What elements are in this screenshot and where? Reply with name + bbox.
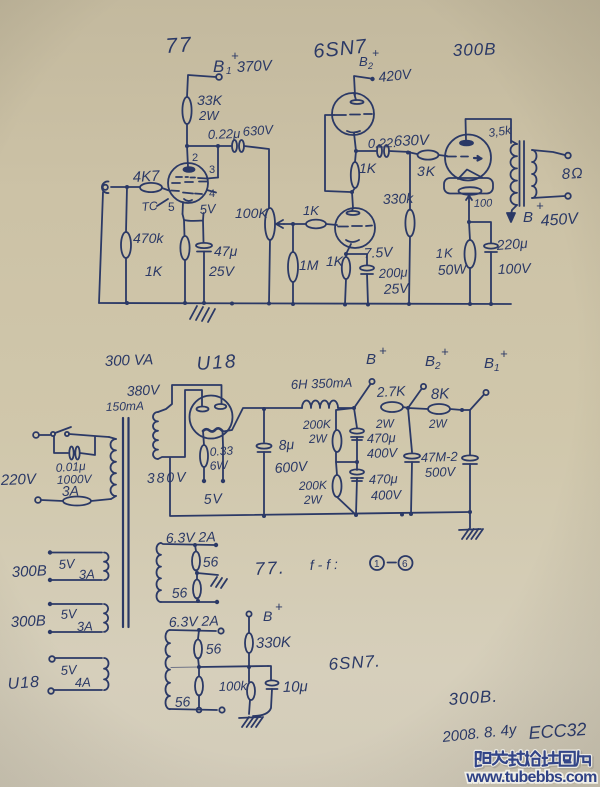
svg-text:+: + <box>275 599 283 614</box>
svg-text:www.tubebbs.com: www.tubebbs.com <box>465 769 597 786</box>
tube U18 rectifier <box>190 396 233 439</box>
svg-text:4A: 4A <box>75 674 91 690</box>
resistor 470K <box>121 187 164 303</box>
PSU ground <box>459 512 483 539</box>
svg-text:77.: 77. <box>254 557 286 579</box>
resistor 200K 2W (lower) <box>298 462 355 514</box>
label 77. <box>254 557 286 579</box>
label 220V <box>0 471 38 489</box>
svg-text:+: + <box>441 344 449 359</box>
resistor 56 (upper, second winding) <box>194 630 222 667</box>
svg-text:6W: 6W <box>209 458 230 473</box>
resistor 100K bias <box>219 667 255 714</box>
hum pot 100 <box>444 178 493 210</box>
wire 33K to plate node <box>186 124 188 146</box>
svg-text:B: B <box>366 351 376 368</box>
svg-text:370V: 370V <box>236 57 274 76</box>
node plate of 77 <box>185 144 189 148</box>
svg-text:200μ: 200μ <box>377 265 408 282</box>
svg-text:56: 56 <box>202 553 219 570</box>
svg-text:100V: 100V <box>498 260 533 277</box>
label B+ 450V <box>523 198 580 230</box>
fuse 3A <box>41 497 111 506</box>
resistor 2.7K 2W <box>375 382 408 431</box>
svg-text:220V: 220V <box>0 471 38 489</box>
svg-text:U18: U18 <box>7 674 40 693</box>
watermark CJK line <box>0 0 2 2</box>
wire plate node to coupling cap <box>187 144 231 148</box>
svg-text:56: 56 <box>205 640 222 657</box>
OPT secondary wires + terminals <box>532 150 571 199</box>
svg-text:1K: 1K <box>145 263 163 279</box>
svg-text:2W: 2W <box>198 108 220 123</box>
node lower plate <box>350 190 354 208</box>
B+ 450V arrow <box>507 205 517 222</box>
wire cap C1 to 100K node <box>244 146 269 208</box>
mains terminals <box>33 432 41 503</box>
label 7.5V <box>363 243 394 261</box>
OPT secondary coil <box>532 150 537 198</box>
svg-text:2: 2 <box>434 361 441 372</box>
label 6SN7 B2+ <box>312 35 379 71</box>
svg-text:8μ: 8μ <box>278 436 295 453</box>
svg-text:3A: 3A <box>77 618 93 634</box>
svg-text:6H 350mA: 6H 350mA <box>291 375 353 392</box>
svg-text:1K: 1K <box>303 203 320 218</box>
wire switch to primary <box>69 434 109 437</box>
svg-text:5: 5 <box>168 200 175 214</box>
label B+ <box>366 343 387 368</box>
humdinger ground (first) <box>195 571 227 588</box>
wire B+ to 33K <box>187 75 216 97</box>
svg-text:56: 56 <box>174 693 191 710</box>
choke 6H 350mA <box>291 375 353 408</box>
svg-text:200K: 200K <box>302 417 332 432</box>
label B2+ <box>425 344 449 372</box>
svg-text:470μ: 470μ <box>367 430 396 446</box>
svg-text:0.22μ: 0.22μ <box>208 126 241 142</box>
winding 6.3V 2A (second) <box>165 628 224 713</box>
wire jack to 4K7 <box>111 185 140 189</box>
svg-text:8Ω: 8Ω <box>561 165 584 183</box>
tube 6SN7 lower triode <box>335 208 375 254</box>
svg-text:300B: 300B <box>452 39 496 60</box>
svg-text:TC: TC <box>141 199 158 214</box>
capacitor 0.22u 630V (C2) <box>368 132 432 157</box>
label 380V lower <box>147 469 188 486</box>
tube 6SN7 upper triode <box>332 93 374 151</box>
wire C2 to 330k node <box>389 151 410 155</box>
svg-text:1: 1 <box>226 66 232 77</box>
svg-text:220μ: 220μ <box>495 235 528 253</box>
svg-text:1K: 1K <box>326 253 344 269</box>
resistor 1K 50W <box>435 222 475 304</box>
svg-text:3: 3 <box>209 164 215 176</box>
wire 300B plate to OPT <box>466 119 511 143</box>
svg-text:10μ: 10μ <box>283 678 308 696</box>
wire U18 output to filter <box>223 407 302 432</box>
winding U18 5V 4A <box>7 656 108 694</box>
label tube 77 <box>165 33 194 58</box>
svg-text:B: B <box>263 608 272 624</box>
wire hum wiper down <box>467 202 491 243</box>
svg-text:100: 100 <box>474 197 494 210</box>
capacitor 470u 400V (lower) <box>350 469 403 515</box>
svg-text:200K: 200K <box>298 478 328 493</box>
label 300B. <box>448 687 499 709</box>
svg-text:300B: 300B <box>10 612 46 631</box>
label 6.3V 2A (second) <box>169 612 219 630</box>
svg-text:150mA: 150mA <box>106 399 144 414</box>
svg-text:470μ: 470μ <box>369 471 398 487</box>
wire 4K7 to grid of 77 <box>162 188 169 191</box>
resistor 1K cathode 6SN7 <box>326 252 350 304</box>
transformer core <box>123 418 129 627</box>
tube 300B <box>445 119 491 181</box>
wire screen grid pin3 to plate node <box>217 146 219 178</box>
label B1+ <box>484 346 508 374</box>
svg-text:2W: 2W <box>375 416 396 431</box>
resistor 200K 2W (upper) <box>302 408 354 452</box>
label 6.3V 2A (first) <box>166 528 216 546</box>
watermark site name glyphs <box>477 753 591 768</box>
resistor 8K 2W <box>408 385 462 431</box>
resistor 56 (lower, first winding) <box>171 573 201 601</box>
svg-text:4K7: 4K7 <box>132 168 160 186</box>
svg-text:25V: 25V <box>382 280 410 297</box>
winding 300B 5V 3A (second) <box>10 602 108 634</box>
resistor 4K7 <box>132 168 162 193</box>
svg-text:25V: 25V <box>208 263 236 279</box>
svg-text:0.22.: 0.22. <box>368 135 397 151</box>
terminal B+ 370V <box>216 74 222 80</box>
svg-text:300B.: 300B. <box>448 687 499 709</box>
watermark url <box>465 769 598 788</box>
svg-text:380V: 380V <box>126 381 161 399</box>
svg-text:300B: 300B <box>11 562 47 581</box>
wire upper grid loop to cathode of lower <box>325 115 350 192</box>
wire jack sleeve to rail <box>99 192 103 303</box>
node SRPP cathode <box>354 149 358 153</box>
wire 420V to 6SN7 upper plate <box>354 76 371 95</box>
svg-text:300 VA: 300 VA <box>105 351 154 370</box>
node B+ takeoff <box>338 379 375 410</box>
OPT primary coil <box>511 141 517 205</box>
svg-text:B: B <box>359 54 368 69</box>
svg-text:100K: 100K <box>235 205 268 221</box>
humdinger node wire <box>171 665 268 669</box>
svg-text:56: 56 <box>171 584 188 601</box>
svg-text:2W: 2W <box>308 431 329 446</box>
resistor 1K grid stopper 6SN7 <box>303 203 326 228</box>
svg-text:7.5V: 7.5V <box>363 243 394 261</box>
wire HV top to right anode <box>158 385 222 412</box>
svg-text:2: 2 <box>367 61 373 71</box>
capacitor 470u 400V (upper) <box>350 408 399 470</box>
svg-text:330k: 330k <box>383 190 415 207</box>
svg-text:5V: 5V <box>58 556 76 572</box>
label 3.5k primary <box>487 123 512 140</box>
capacitor 200u 25V <box>346 254 411 304</box>
svg-text:B: B <box>425 353 435 370</box>
ground bias divider <box>239 717 263 727</box>
capacitor 10u <box>253 666 308 716</box>
label 5V <box>203 490 224 507</box>
capacitor 47u 25V <box>184 213 238 303</box>
svg-text:450V: 450V <box>540 210 580 230</box>
svg-text:33K: 33K <box>197 92 223 108</box>
svg-text:+: + <box>500 346 508 361</box>
svg-text:6SN7.: 6SN7. <box>328 651 381 674</box>
wire grid tap with arrow <box>276 220 306 228</box>
capacitor 0.01u 1000V across switch <box>54 436 95 499</box>
resistor 100K <box>235 205 275 240</box>
svg-text:600V: 600V <box>274 458 309 476</box>
svg-text:8K: 8K <box>431 385 451 403</box>
svg-text:500V: 500V <box>425 464 457 480</box>
resistor 56 (upper, first winding) <box>192 545 219 573</box>
svg-text:50W: 50W <box>437 260 468 278</box>
svg-text:380V: 380V <box>147 469 188 486</box>
svg-text:2.7K: 2.7K <box>375 382 406 400</box>
label 300B <box>452 39 496 60</box>
tube 77 (pentode) <box>168 146 218 214</box>
svg-text:1K: 1K <box>359 160 377 176</box>
PSU bottom rail <box>170 458 472 518</box>
svg-text:2W: 2W <box>428 416 449 431</box>
svg-text:+: + <box>536 198 544 213</box>
svg-text:B: B <box>213 57 224 76</box>
resistor 1K cathode 77 <box>180 214 189 303</box>
svg-text:ECC32: ECC32 <box>528 719 587 743</box>
ground rail (top schematic) <box>99 301 511 307</box>
svg-text:f - f :: f - f : <box>310 556 339 573</box>
svg-text:1K: 1K <box>435 245 454 261</box>
label 8 ohm <box>561 165 584 183</box>
input jack <box>102 181 109 193</box>
svg-text:3A: 3A <box>79 566 95 582</box>
svg-text:400V: 400V <box>371 487 403 503</box>
capacitor 47M-2 500V (first) <box>404 408 459 514</box>
capacitor 0.22u 630V (C1) <box>208 122 275 152</box>
resistor 3K grid 300B <box>410 150 447 179</box>
capacitor 220u 100V <box>484 235 532 304</box>
winding 6.3V 2A (first) <box>157 543 220 604</box>
capacitor 47M-2 (second) <box>462 410 478 512</box>
transformer primary coil <box>109 437 116 499</box>
signature 2008.8.4y ECC32 <box>441 719 588 746</box>
label 380V 150mA <box>106 381 162 414</box>
label TC <box>141 199 168 214</box>
node B1+ takeoff <box>460 390 489 412</box>
svg-text:100k: 100k <box>219 678 249 694</box>
svg-text:U18: U18 <box>196 351 238 375</box>
svg-text:47M-2: 47M-2 <box>421 449 459 465</box>
resistor 1M <box>288 224 319 303</box>
node B2+ takeoff <box>406 384 426 410</box>
resistor 1K SRPP <box>351 151 377 192</box>
resistor 33K 2W <box>182 92 222 124</box>
winding 300B 5V 3A (first) <box>11 550 108 582</box>
svg-text:B: B <box>484 355 494 372</box>
label 300 VA <box>105 351 154 370</box>
svg-text:630V: 630V <box>242 122 275 139</box>
label U18 <box>196 351 238 375</box>
svg-text:+: + <box>379 343 387 358</box>
resistor 330K bias <box>245 617 292 667</box>
wire HV bottom to left anode <box>158 390 202 459</box>
node B+ 370V label <box>213 48 274 77</box>
capacitor 8u 600V <box>257 409 310 516</box>
svg-text:0.33: 0.33 <box>209 443 234 459</box>
svg-text:B: B <box>523 209 533 226</box>
svg-text:5V: 5V <box>203 490 224 507</box>
svg-text:5V: 5V <box>199 201 217 217</box>
svg-text:+: + <box>372 46 379 60</box>
svg-text:630V: 630V <box>394 132 432 150</box>
svg-text:470k: 470k <box>133 230 164 246</box>
svg-text:400V: 400V <box>367 445 399 461</box>
switch <box>39 427 71 436</box>
terminal B+ bias <box>246 599 283 624</box>
svg-text:1: 1 <box>494 363 500 374</box>
svg-text:1: 1 <box>374 559 380 570</box>
svg-text:1M: 1M <box>299 257 319 273</box>
label f-f pins <box>310 556 413 573</box>
resistor 330k <box>383 152 415 304</box>
svg-text:2W: 2W <box>303 492 324 507</box>
svg-text:6: 6 <box>402 559 408 570</box>
OPT core <box>520 141 525 206</box>
filament leads + 0.33 6W resistor <box>200 431 234 483</box>
svg-text:6.3V 2A: 6.3V 2A <box>169 612 219 630</box>
label 5V cathode <box>199 201 217 217</box>
wire SRPP out to cap C2 <box>356 150 377 152</box>
svg-text:77: 77 <box>165 33 194 58</box>
label 1K (cathode 77) <box>145 263 163 279</box>
svg-text:4: 4 <box>209 188 215 200</box>
terminal 420V <box>370 65 413 85</box>
svg-text:330K: 330K <box>256 634 293 652</box>
label 6SN7. <box>328 651 381 674</box>
svg-text:2: 2 <box>192 152 198 164</box>
HV secondary coil 380V <box>153 412 158 459</box>
mid junction wire <box>336 452 359 464</box>
ground symbol (top schematic) <box>190 306 215 322</box>
svg-text:3K: 3K <box>417 163 436 179</box>
svg-text:47μ: 47μ <box>214 243 238 259</box>
resistor 56 (lower, second winding) <box>174 667 203 710</box>
wire 100K to ground rail <box>269 240 270 303</box>
wire 1K to 6SN7 grid <box>326 224 337 225</box>
